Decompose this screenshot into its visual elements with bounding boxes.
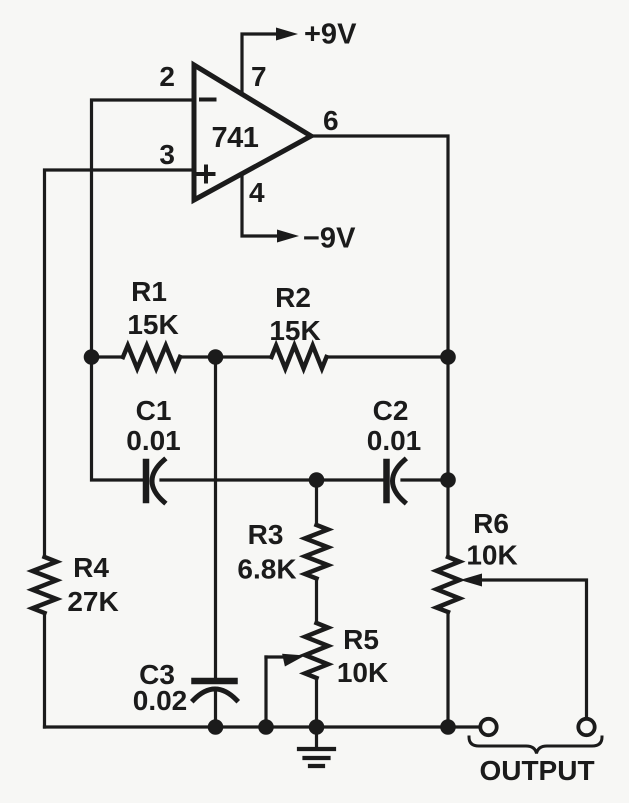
svg-text:15K: 15K [269,315,320,346]
svg-text:15K: 15K [127,309,178,340]
svg-text:2: 2 [159,61,175,92]
wire pin2 to left inner vertical down to R1 node and C1 line [92,100,195,480]
node G junction dot (R5 wiper / bottom rail) [258,719,274,735]
svg-text:4: 4 [249,177,265,208]
wire R5 bottom to bottom rail [315,678,318,727]
wire node A to R1 [92,355,124,358]
resistor R4 [33,557,57,613]
node F junction dot (C3 / bottom rail) [208,719,224,735]
svg-text:10K: 10K [337,657,388,688]
resistor R2 [272,346,327,369]
op-amp minus input sign [201,98,215,102]
capacitor C1 right curved plate [152,460,164,502]
ground bar 3 [310,764,323,768]
wire R1 to R2 [180,355,272,358]
svg-text:R3: R3 [248,519,284,550]
arrowhead +9V [276,28,298,41]
svg-text:0.01: 0.01 [126,425,181,456]
wire pin7 to +9V [242,34,278,95]
capacitor C3 bottom curved plate [194,689,237,700]
wire R5 wiper down to bottom rail [264,657,267,727]
node B junction dot (R1 / R2 / C3 branch) [208,349,224,365]
capacitor C2 right curved plate [393,460,405,502]
ground stem [315,727,318,749]
svg-text:3: 3 [159,139,175,170]
R5 wiper wire [266,655,286,658]
wire R6 bottom to bottom rail [446,612,449,727]
op-amp plus input sign [199,167,214,182]
svg-text:C1: C1 [136,395,172,426]
svg-text:R5: R5 [343,624,379,655]
resistor R3 [305,525,328,579]
arrowhead -9V [277,230,299,243]
wire R3 to R5 [315,579,318,624]
svg-text:6: 6 [323,105,339,136]
output terminal right [578,719,594,735]
svg-text:7: 7 [251,61,267,92]
svg-text:−9V: −9V [303,223,356,255]
potentiometer R6 [437,557,460,612]
node C junction dot (R2 / right vertical) [440,349,456,365]
output terminal left [480,719,496,735]
svg-text:6.8K: 6.8K [237,554,296,585]
potentiometer R5 [305,623,328,678]
R5 wiper arrowhead [282,654,305,667]
ground bar 2 [305,756,329,760]
node D junction dot (C1 / C2 / R3 branch) [309,472,325,488]
op-amp U1 triangle [194,65,311,200]
svg-text:0.02: 0.02 [133,685,188,716]
wire C3 to bottom rail [214,692,217,727]
wire R4 bottom to bottom rail [43,613,46,727]
wire pin3 to outer left vertical down to R4 [45,170,195,557]
svg-text:OUTPUT: OUTPUT [479,755,594,786]
wire middle vertical from R1-R2 node to C3 [214,357,217,678]
node A junction dot (pin2 / R1) [84,349,100,365]
capacitor C3 top plate [195,678,235,685]
svg-text:+9V: +9V [304,19,357,51]
wire pin4 to -9V [242,174,280,237]
wire bottom rail [45,725,481,728]
capacitor C1 left plate [143,462,150,500]
output brace [469,737,602,754]
wire C1C2 junction down to R3 [315,480,318,525]
R6 wiper wire to right output [480,580,587,718]
svg-text:741: 741 [212,122,259,154]
R6 wiper arrowhead [460,574,482,587]
svg-text:27K: 27K [67,586,118,617]
svg-text:R4: R4 [73,552,109,583]
wire pin6 output to right vertical [311,136,448,557]
svg-text:R6: R6 [473,508,509,539]
ground bar 1 [299,747,334,751]
node I junction dot (R6 / bottom rail) [440,719,456,735]
svg-text:R1: R1 [131,276,167,307]
svg-text:R2: R2 [275,282,311,313]
svg-text:C2: C2 [373,395,409,426]
svg-text:0.01: 0.01 [367,425,422,456]
capacitor C2 left plate [383,462,390,500]
svg-text:10K: 10K [466,540,517,571]
resistor R1 [123,346,180,369]
node E junction dot (C2 / right vertical) [440,472,456,488]
wire C2 to right vertical [402,478,448,481]
node H junction dot (R5 / ground) [309,719,325,735]
wire C1 to C2 junction line [161,478,384,481]
wire R2 to right vertical [327,355,449,358]
